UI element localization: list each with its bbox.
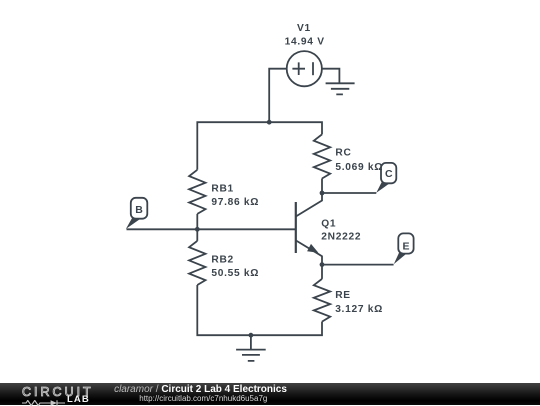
svg-text:V1: V1: [297, 23, 311, 34]
svg-text:14.94 V: 14.94 V: [285, 37, 325, 48]
svg-text:Q1: Q1: [321, 218, 336, 229]
svg-text:RC: RC: [335, 147, 351, 158]
svg-text:E: E: [402, 240, 409, 252]
svg-text:RE: RE: [335, 290, 351, 301]
svg-text:5.069 kΩ: 5.069 kΩ: [335, 162, 383, 173]
svg-text:RB2: RB2: [211, 254, 233, 265]
svg-text:50.55 kΩ: 50.55 kΩ: [211, 268, 259, 279]
svg-text:RB1: RB1: [211, 184, 233, 195]
svg-text:B: B: [135, 204, 143, 216]
svg-text:3.127 kΩ: 3.127 kΩ: [335, 304, 383, 315]
svg-text:97.86 kΩ: 97.86 kΩ: [211, 197, 259, 208]
svg-text:2N2222: 2N2222: [321, 232, 361, 243]
svg-text:C: C: [385, 168, 393, 180]
